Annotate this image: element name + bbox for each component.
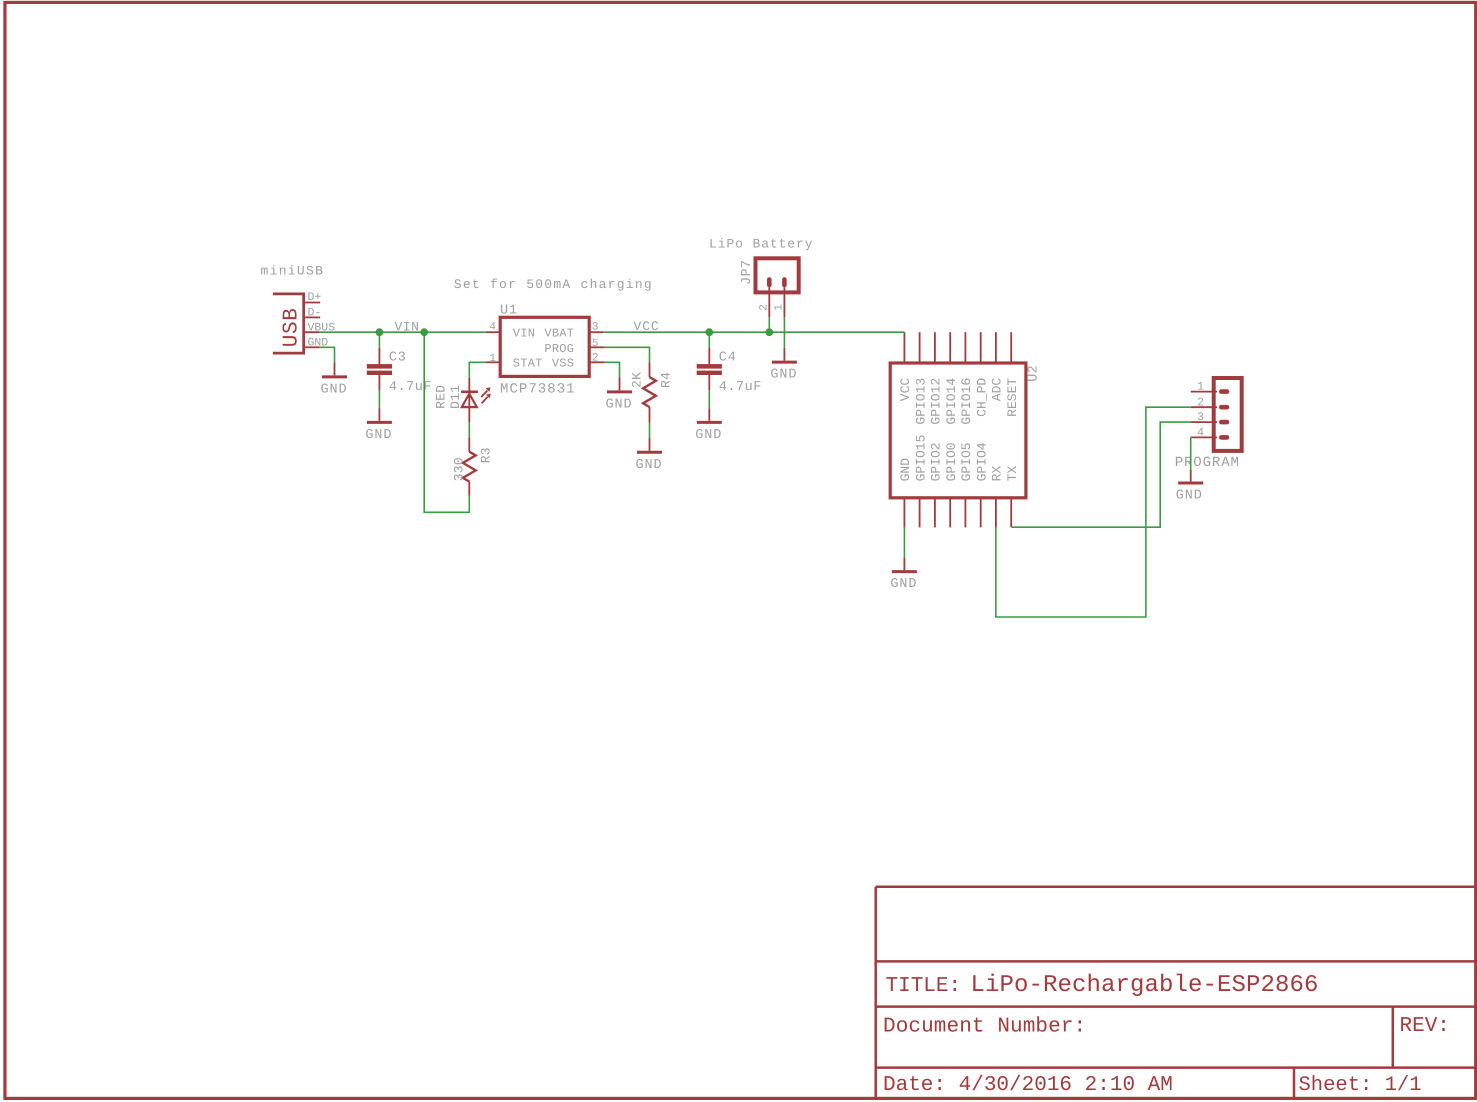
svg-text:GPIO16: GPIO16 [959, 378, 974, 425]
U2 pin GPIO15 [919, 498, 921, 528]
resistor R3 [468, 437, 470, 496]
wire USB GND to ground [319, 347, 334, 362]
ground symbol below JP7 [783, 348, 785, 361]
svg-text:LiPo Battery: LiPo Battery [709, 237, 813, 252]
U2 pin GND [903, 498, 905, 528]
U1 pin 4 VIN [486, 331, 500, 333]
svg-text:GND: GND [605, 397, 632, 412]
LED D11 bottom pin [468, 407, 470, 422]
svg-text:GPIO14: GPIO14 [944, 378, 959, 425]
U2 pin RX [995, 498, 997, 528]
LED D11 top pin [468, 378, 470, 408]
svg-text:VIN: VIN [395, 319, 420, 334]
junction VCC at C4 [705, 328, 713, 336]
svg-text:C4: C4 [719, 350, 737, 365]
wire VIN rail [319, 331, 485, 333]
U2 pin VCC [903, 332, 905, 363]
svg-text:GPIO15: GPIO15 [913, 435, 928, 482]
wire TX to PROGRAM pin3 [1011, 422, 1190, 527]
JP7 pin 1 contact [782, 280, 787, 286]
svg-text:GND: GND [770, 368, 797, 383]
connector USB body [273, 294, 304, 353]
LED D11 arrow 1 [481, 391, 487, 397]
svg-text:GND: GND [320, 382, 347, 397]
svg-text:GND: GND [635, 458, 662, 473]
LED D11 cathode bar [461, 390, 478, 393]
svg-text:VIN: VIN [513, 327, 535, 341]
pin D+ [305, 302, 320, 304]
U2 pin TX [1010, 498, 1012, 527]
U2 pin ADC [995, 332, 997, 363]
ground symbol below U2 [903, 557, 905, 570]
svg-text:Document Number:: Document Number: [883, 1015, 1086, 1038]
svg-text:VCC: VCC [634, 319, 660, 334]
junction VIN at C3 [376, 328, 384, 336]
wire RX to PROGRAM pin2 [996, 407, 1191, 617]
capacitor C4 plates [697, 364, 722, 369]
svg-text:ADC: ADC [990, 378, 1005, 402]
ground symbol below C4 [708, 408, 710, 420]
U2 pin GPIO2 [934, 498, 936, 528]
svg-text:Sheet: 1/1: Sheet: 1/1 [1299, 1074, 1422, 1097]
svg-text:VBAT: VBAT [544, 327, 574, 341]
svg-text:REV:: REV: [1400, 1015, 1450, 1038]
connector JP7 body [756, 258, 799, 292]
svg-text:1: 1 [489, 353, 496, 365]
svg-text:3: 3 [592, 322, 599, 334]
svg-text:TITLE:: TITLE: [886, 975, 962, 998]
svg-text:miniUSB: miniUSB [261, 264, 325, 279]
PROGRAM pin 2 contact [1221, 405, 1227, 410]
PROGRAM pin 4 contact [1221, 435, 1227, 440]
svg-text:TX: TX [1005, 466, 1020, 482]
module U2 body ESP8266 [890, 363, 1026, 498]
U2 pin GPIO12 [934, 332, 936, 363]
svg-text:2: 2 [1197, 396, 1204, 409]
svg-text:LiPo-Rechargable-ESP2866: LiPo-Rechargable-ESP2866 [971, 972, 1319, 999]
wire R3 bottom loop to VIN rail [424, 332, 469, 512]
JP7 pin 1 lead [783, 287, 785, 317]
svg-text:3: 3 [1197, 411, 1204, 424]
svg-text:PROG: PROG [544, 342, 574, 356]
JP7 pin 2 lead [768, 287, 770, 317]
svg-text:C3: C3 [389, 350, 407, 365]
svg-text:GPIO0: GPIO0 [944, 442, 959, 481]
LED D11 triangle [462, 394, 477, 408]
svg-text:4: 4 [1197, 427, 1204, 440]
svg-text:GND: GND [1176, 489, 1203, 504]
op-amp U1 body MCP73831 [500, 317, 589, 376]
resistor R4 [649, 363, 651, 423]
wire C4 to ground [708, 390, 710, 408]
svg-text:1: 1 [773, 304, 785, 311]
svg-text:PROGRAM: PROGRAM [1175, 455, 1240, 471]
PROGRAM pin 3 contact [1221, 420, 1227, 425]
ground symbol below USB [334, 362, 336, 375]
svg-text:Set for 500mA charging: Set for 500mA charging [454, 277, 653, 292]
svg-text:R3: R3 [478, 447, 493, 463]
wire D11 top to U1 pin1 [469, 362, 485, 377]
ground symbol below R4 [649, 438, 651, 451]
svg-text:VSS: VSS [552, 357, 574, 371]
svg-text:R4: R4 [658, 372, 673, 388]
svg-text:2: 2 [592, 353, 599, 365]
svg-text:GPIO4: GPIO4 [975, 442, 990, 481]
JP7 pin 2 contact [767, 280, 772, 286]
wire C4 top [708, 332, 710, 348]
PROGRAM pin 1 lead [1191, 391, 1217, 393]
U2 pin GPIO4 [980, 498, 982, 528]
U1 pin 5 PROG [590, 346, 605, 348]
pin D- [305, 316, 320, 318]
svg-text:GPIO13: GPIO13 [913, 378, 928, 425]
wire PROGRAM pin4 to ground [1190, 437, 1192, 469]
svg-text:USB: USB [281, 308, 304, 348]
svg-text:2K: 2K [630, 372, 645, 388]
junction VIN at R3 loop [420, 328, 428, 336]
U2 pin GPIO5 [964, 498, 966, 528]
capacitor C4 leads [708, 348, 710, 391]
pin GND [305, 346, 319, 348]
capacitor C3 leads [378, 348, 380, 391]
junction VCC at JP7 [765, 328, 773, 336]
svg-text:MCP73831: MCP73831 [500, 382, 576, 398]
svg-text:4.7uF: 4.7uF [389, 380, 432, 395]
wire C3 top [378, 332, 380, 348]
U1 pin 3 VBAT [590, 331, 604, 333]
U2 pin CH_PD [980, 332, 982, 363]
svg-text:JP7: JP7 [740, 260, 755, 285]
svg-text:GPIO5: GPIO5 [959, 442, 974, 481]
svg-text:330: 330 [451, 457, 466, 481]
ground symbol below C3 [378, 408, 380, 420]
svg-text:U1: U1 [500, 303, 518, 318]
svg-text:RESET: RESET [1005, 378, 1020, 417]
U1 pin 2 VSS [590, 361, 605, 363]
U2 pin RESET [1010, 332, 1012, 363]
svg-text:5: 5 [592, 338, 599, 350]
pin VBUS [305, 331, 319, 333]
svg-text:GND: GND [365, 428, 392, 443]
wire JP7 pin1 to ground (crosses rail) [783, 317, 785, 348]
svg-text:D+: D+ [308, 291, 322, 304]
wire R4 to ground [649, 423, 651, 438]
svg-text:2: 2 [758, 304, 770, 311]
svg-text:CH_PD: CH_PD [975, 378, 990, 417]
wire U1 pin5 to R4 [605, 347, 650, 362]
svg-text:GND: GND [890, 577, 917, 592]
PROGRAM pin 4 lead [1191, 436, 1217, 438]
svg-text:GPIO12: GPIO12 [929, 378, 944, 425]
svg-text:4.7uF: 4.7uF [719, 380, 762, 395]
wire D11 to R3 [468, 422, 470, 437]
svg-text:D-: D- [308, 306, 322, 319]
svg-text:RED: RED [434, 385, 449, 409]
svg-text:D11: D11 [448, 385, 463, 409]
svg-text:Date: 4/30/2016 2:10 AM: Date: 4/30/2016 2:10 AM [883, 1074, 1173, 1097]
wire U2 GND pin down [903, 527, 905, 557]
PROGRAM pin 2 lead [1191, 406, 1217, 408]
connector PROGRAM body [1214, 378, 1242, 451]
svg-text:U2: U2 [1026, 365, 1041, 382]
svg-text:VCC: VCC [898, 378, 913, 402]
U1 pin 1 STAT [486, 361, 500, 363]
wire VCC rail [604, 331, 905, 333]
LED D11 arrow 2 [482, 397, 488, 403]
svg-text:GND: GND [695, 428, 722, 443]
svg-text:GND: GND [898, 458, 913, 482]
svg-text:4: 4 [489, 322, 496, 334]
PROGRAM pin 1 contact [1221, 389, 1227, 394]
PROGRAM pin 3 lead [1191, 421, 1217, 423]
U2 pin GPIO14 [949, 332, 951, 363]
U2 pin GPIO13 [919, 332, 921, 363]
svg-text:RX: RX [990, 466, 1005, 482]
svg-text:GPIO2: GPIO2 [929, 442, 944, 481]
ground symbol below PROGRAM [1190, 470, 1192, 482]
ground symbol below U1 pin2 [619, 377, 621, 390]
wire C3 to ground [378, 390, 380, 408]
wire U1 pin2 to ground [605, 362, 620, 377]
svg-text:STAT: STAT [513, 357, 543, 371]
U2 pin GPIO0 [949, 498, 951, 528]
capacitor C3 plates [367, 364, 392, 369]
svg-text:1: 1 [1197, 381, 1204, 394]
U2 pin GPIO16 [964, 332, 966, 363]
wire JP7 pin2 to VCC rail [768, 317, 770, 332]
title block frame [876, 887, 1476, 1099]
